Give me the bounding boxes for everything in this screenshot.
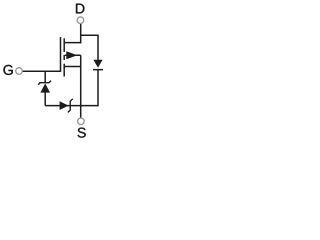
MOSFET schematic with protection diodes — [0, 0, 137, 140]
transistor Q1 body arrow head — [66, 51, 77, 59]
diode D1 body diode triangle (anode up) — [93, 60, 102, 68]
wire: body diode lower lead — [97, 70, 99, 107]
wire: gate lead from G terminal — [22, 70, 61, 72]
transistor Q1 channel segment 2 (body) — [63, 55, 65, 60]
wire: body arrow line to source column — [65, 54, 81, 56]
diode D1 cathode bar — [93, 69, 103, 71]
wire: branch to body diode — [81, 35, 98, 60]
transistor Q1 channel segment 1 (drain) — [63, 38, 65, 52]
terminal circle G — [16, 68, 23, 75]
wire: bottom bus — [45, 105, 98, 107]
wire: D terminal drop — [80, 23, 82, 43]
zener Z1 triangle (apex up toward gate node) — [40, 83, 50, 92]
wire: source stub — [64, 65, 81, 67]
wire: zener Z1 top lead — [44, 71, 46, 82]
label G — [3, 65, 12, 75]
zener Z1 cathode bar with hooks — [38, 81, 51, 85]
terminal circle S — [78, 118, 85, 125]
transistor Q1 channel segment 3 (source) — [63, 64, 65, 77]
terminal circle D — [77, 17, 84, 24]
wire: source column down to S terminal — [80, 55, 82, 118]
transistor Q1 gate bar — [60, 37, 62, 72]
label D — [76, 4, 84, 14]
zener Z2 triangle (pointing right toward S) — [60, 101, 69, 110]
wire: zener Z1 bottom lead — [44, 92, 46, 105]
zener Z2 cathode bar with hooks — [68, 99, 73, 113]
wire: drain horizontal to channel — [64, 42, 82, 44]
label S — [78, 128, 86, 138]
